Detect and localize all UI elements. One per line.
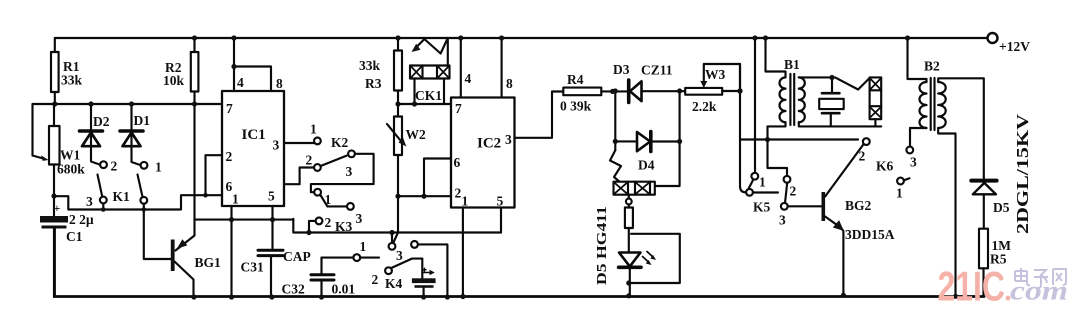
connector CK1 socket [410, 66, 450, 107]
wire IC1 pin2 [206, 155, 223, 195]
wire top +12V bus [55, 38, 988, 52]
wire K5 feed vertical [737, 64, 746, 192]
LED D5 HG411 [619, 252, 656, 299]
wire node bus at y104 [33, 104, 223, 156]
svg-text:IC2: IC2 [477, 136, 501, 152]
switch K6 [863, 138, 913, 184]
svg-text:2: 2 [226, 149, 233, 164]
wire bus to K5 contact1 [752, 35, 757, 172]
svg-text:5: 5 [497, 194, 504, 209]
wire HG411 bypass loop [630, 234, 680, 283]
wire IC1 pin1 [229, 206, 234, 300]
svg-text:1: 1 [462, 194, 469, 209]
svg-text:0 39k: 0 39k [560, 99, 592, 114]
svg-text:3: 3 [356, 211, 363, 226]
svg-text:CAP: CAP [283, 249, 311, 264]
svg-text:2: 2 [325, 215, 332, 230]
wire IC1 right aux pin to K2 contact 2 [284, 168, 314, 185]
wire IC1 pin3 to K2 [284, 142, 314, 144]
diode D5 high voltage [971, 176, 996, 229]
svg-text:C1: C1 [66, 229, 83, 244]
svg-text:3: 3 [86, 194, 93, 209]
connector B1 right cells [870, 77, 882, 126]
svg-text:D5 HG411: D5 HG411 [594, 206, 609, 285]
svg-text:7: 7 [226, 101, 233, 116]
svg-text:2: 2 [111, 159, 118, 174]
svg-text:BG1: BG1 [195, 255, 222, 270]
wire IC2 pin8 [499, 35, 504, 97]
svg-text:W1: W1 [60, 148, 81, 163]
svg-text:5: 5 [268, 189, 275, 204]
terminal +12V [988, 33, 998, 43]
potentiometer W2 [387, 117, 406, 199]
svg-text:3: 3 [505, 132, 512, 147]
resistor R3 [394, 35, 402, 116]
wire IC1 pin5 [270, 206, 275, 250]
diode D1 [120, 101, 143, 165]
svg-text:2: 2 [455, 186, 462, 201]
svg-text:D2: D2 [93, 114, 110, 129]
svg-text:2: 2 [859, 149, 866, 164]
transistor BG1 [171, 220, 197, 300]
svg-text:3: 3 [346, 164, 353, 179]
svg-text:IC1: IC1 [242, 127, 266, 143]
svg-text:K5: K5 [753, 200, 771, 215]
svg-text:10k: 10k [163, 73, 185, 88]
svg-text:1: 1 [360, 239, 367, 254]
transistor BG2 [822, 144, 864, 298]
svg-text:2: 2 [790, 184, 797, 199]
wire CK1 bottom to IC2 pin7 [398, 103, 451, 105]
watermark CJK dianziwang [1015, 268, 1066, 288]
svg-text:1: 1 [155, 160, 162, 175]
wire relay row y139 [740, 137, 858, 176]
connector HG411 socket [614, 182, 655, 208]
svg-text:+12V: +12V [999, 39, 1030, 54]
svg-text:C32: C32 [282, 282, 305, 297]
svg-text:1: 1 [310, 122, 317, 137]
svg-text:6: 6 [454, 155, 461, 170]
diode D2 [80, 101, 103, 164]
svg-text:3: 3 [910, 155, 917, 170]
potentiometer W3 [685, 64, 742, 95]
svg-text:0.01: 0.01 [332, 282, 356, 297]
connector CK1 plug arrow [412, 38, 448, 66]
svg-text:3: 3 [396, 248, 403, 263]
svg-text:D3: D3 [613, 62, 630, 77]
wire IC1 pin4 pin8 [231, 35, 271, 91]
potentiometer W1 [33, 104, 60, 196]
svg-text:1: 1 [325, 192, 332, 207]
svg-text:D5: D5 [993, 200, 1010, 215]
switch K3 [309, 189, 354, 233]
svg-text:B1: B1 [784, 57, 800, 72]
svg-text:K1: K1 [113, 189, 131, 204]
svg-text:8: 8 [276, 76, 283, 91]
svg-text:2: 2 [372, 272, 379, 287]
svg-text:1: 1 [232, 192, 239, 207]
svg-text:33k: 33k [359, 58, 381, 73]
svg-text:W3: W3 [705, 67, 726, 82]
svg-text:8: 8 [506, 76, 513, 91]
svg-text:3: 3 [273, 138, 280, 153]
resistor R2 [191, 35, 199, 219]
node K1 junctions [101, 193, 208, 212]
svg-text:D4: D4 [638, 158, 655, 173]
resistor R1 [51, 52, 59, 104]
switch K2 [314, 138, 355, 171]
capacitor C1 (electrolytic 2.2u) [40, 193, 68, 297]
diode D4 branch [610, 88, 682, 186]
resistor R4 [563, 88, 628, 96]
wire timing bus y232 [293, 219, 501, 235]
svg-text:+: + [54, 201, 61, 215]
capacitor C31 [258, 250, 283, 299]
transformer B2 [905, 35, 984, 299]
svg-text:K4: K4 [385, 276, 403, 291]
svg-text:BG2: BG2 [845, 198, 872, 213]
svg-text:1: 1 [759, 175, 766, 190]
switch K5 [746, 173, 821, 210]
op-amp IC2 [451, 98, 515, 208]
svg-text:W2: W2 [406, 127, 427, 142]
watermark 21IC.com [938, 263, 1069, 310]
wire K1 lower link [54, 195, 222, 209]
resistor HG411 internal [625, 208, 633, 253]
capacitor K4 electrolytic [412, 259, 436, 300]
svg-text:D1: D1 [134, 113, 151, 128]
svg-text:4: 4 [237, 75, 244, 90]
svg-text:CZ11: CZ11 [641, 63, 673, 78]
switch K4 [322, 233, 451, 300]
svg-text:4: 4 [465, 71, 472, 86]
wire IC2 pin6 [421, 159, 451, 199]
svg-text:B2: B2 [924, 59, 940, 74]
transformer B1 [763, 35, 881, 139]
switch K1 [98, 161, 172, 259]
svg-text:K2: K2 [331, 135, 349, 150]
svg-text:7: 7 [455, 101, 462, 116]
wire W2 down to K4 [393, 196, 398, 243]
svg-text:3DD15A: 3DD15A [845, 227, 895, 242]
svg-text:33k: 33k [61, 73, 83, 88]
wire IC2 pin3 to R4 [515, 92, 564, 138]
op-amp IC1 [222, 91, 284, 206]
svg-text:2DGL/15KV: 2DGL/15KV [1013, 113, 1032, 234]
diode D3 [629, 80, 686, 103]
svg-text:680k: 680k [57, 162, 85, 177]
svg-text:2 2µ: 2 2µ [69, 212, 94, 227]
wire IC2 pin4 [458, 35, 463, 97]
svg-text:R4: R4 [567, 72, 584, 87]
svg-text:21IC: 21IC [938, 263, 1006, 310]
wire W2 to IC2 pin2 [398, 195, 451, 197]
wire IC2 pin5 [500, 208, 502, 233]
svg-text:2.2k: 2.2k [692, 99, 717, 114]
crystal B1 internal [819, 75, 844, 127]
wire IC2 pin1 [460, 208, 465, 300]
svg-text:2: 2 [306, 153, 313, 168]
svg-text:CK1: CK1 [415, 88, 442, 103]
svg-text:K6: K6 [876, 159, 894, 174]
svg-text:1: 1 [896, 186, 903, 201]
wire bottom ground bus [55, 229, 985, 297]
svg-text:K3: K3 [335, 219, 353, 234]
node R1 bottom [52, 101, 57, 106]
svg-text:3: 3 [779, 213, 786, 228]
resistor R5 [979, 229, 988, 297]
svg-text:R3: R3 [365, 76, 382, 91]
capacitor C32 [311, 258, 334, 300]
svg-text:C31: C31 [241, 260, 264, 275]
wire K2 contact3 to K3 contact1 [311, 154, 374, 192]
wire BG1 emitter to IC1 pin1 [195, 219, 294, 221]
